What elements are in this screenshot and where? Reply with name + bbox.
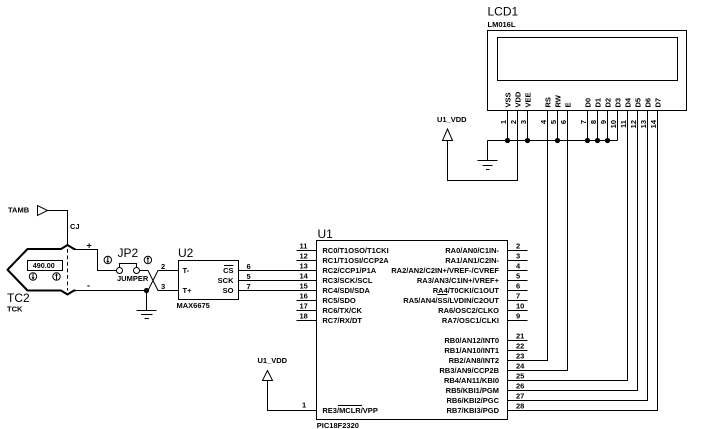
svg-text:LCD1: LCD1 xyxy=(488,5,519,19)
svg-text:U1_VDD: U1_VDD xyxy=(437,115,467,124)
wire LCD pin 5 RW to ground bus xyxy=(557,111,559,141)
U1 pin 12 stub xyxy=(297,260,317,262)
svg-text:3: 3 xyxy=(161,282,165,291)
svg-text:TAMB: TAMB xyxy=(8,206,30,215)
svg-text:RA1/AN1/C2IN-: RA1/AN1/C2IN- xyxy=(445,256,499,265)
svg-text:1: 1 xyxy=(302,401,306,410)
svg-text:13: 13 xyxy=(300,262,308,271)
svg-text:9: 9 xyxy=(516,312,520,321)
TC2 internal dashed junction line xyxy=(67,249,69,291)
wire LCD pin 9 D2 to ground bus xyxy=(607,111,609,141)
wire U2 SCK pin 5 to U1 RC3 pin 14 xyxy=(239,280,317,282)
svg-text:RB1/AN10/INT1: RB1/AN10/INT1 xyxy=(444,346,499,355)
svg-text:U1_VDD: U1_VDD xyxy=(258,356,288,365)
svg-text:12: 12 xyxy=(300,252,308,261)
svg-text:9: 9 xyxy=(599,120,608,124)
U2 pin 2 number label xyxy=(161,262,165,271)
svg-text:24: 24 xyxy=(516,362,525,371)
U1 left pin labels RC0-RC7 xyxy=(322,246,389,325)
U2 pin label SO xyxy=(223,286,234,295)
U2 pin label SCK xyxy=(218,276,234,285)
microcontroller U1 body xyxy=(317,241,508,420)
svg-text:SCK: SCK xyxy=(218,276,234,285)
svg-text:5: 5 xyxy=(247,272,251,281)
svg-text:T+: T+ xyxy=(183,286,193,295)
svg-text:CS: CS xyxy=(223,266,233,275)
U1 pin 16 stub xyxy=(297,300,317,302)
U1 right RB pin numbers 21-28 xyxy=(516,332,525,411)
U2 value MAX6675 xyxy=(177,301,210,310)
jumper JP2 reference label xyxy=(118,246,139,260)
svg-text:CJ: CJ xyxy=(70,222,80,231)
wire LCD pin 7 D0 to ground bus xyxy=(587,111,589,141)
crossover wire to U2 T+ pin 3 xyxy=(148,271,179,291)
svg-text:T-: T- xyxy=(183,266,190,275)
TC2 value TCK xyxy=(7,305,23,314)
svg-text:22: 22 xyxy=(516,342,524,351)
svg-text:15: 15 xyxy=(300,282,308,291)
svg-text:RA7/OSC1/CLKI: RA7/OSC1/CLKI xyxy=(442,316,499,325)
svg-text:RA3/AN3/C1IN+/VREF+: RA3/AN3/C1IN+/VREF+ xyxy=(417,276,500,285)
U2 reference label xyxy=(178,246,194,260)
svg-text:VEE: VEE xyxy=(523,92,532,107)
LCD1 pin name labels VSS VDD VEE RS RW E D0-D7 xyxy=(503,91,662,107)
down-arrow indicator near JP2 xyxy=(104,256,111,263)
LCD1 pin numbers 1-14 xyxy=(499,119,658,128)
svg-text:D6: D6 xyxy=(643,98,652,108)
wire TC2 minus terminal to ground junction xyxy=(76,290,149,292)
junction dot on TC2 minus net xyxy=(144,288,149,293)
LCD1 reference label xyxy=(488,5,519,19)
svg-text:RC0/T1OSO/T1CKI: RC0/T1OSO/T1CKI xyxy=(322,246,388,255)
svg-text:RS: RS xyxy=(543,97,552,107)
wire U2 SO pin 7 to U1 RC4 pin 15 xyxy=(239,290,317,292)
U1 pin label RE3/MCLR/VPP with overline xyxy=(322,406,377,416)
svg-text:11: 11 xyxy=(619,120,628,128)
svg-text:10: 10 xyxy=(609,120,618,128)
TC2 reference label xyxy=(7,291,30,305)
svg-text:14: 14 xyxy=(649,119,658,128)
wire LCD pin 10 D3 to ground bus xyxy=(617,111,619,141)
wire LCD pin 12 D5 to U1 pin 26 RB5 xyxy=(508,111,638,391)
svg-text:14: 14 xyxy=(300,272,309,281)
svg-text:4: 4 xyxy=(516,262,521,271)
node label CJ xyxy=(70,222,80,231)
U2 pin label CS with overline xyxy=(223,266,233,276)
svg-text:LM016L: LM016L xyxy=(488,20,516,29)
svg-text:6: 6 xyxy=(559,120,568,124)
svg-text:RB0/AN12/INT0: RB0/AN12/INT0 xyxy=(444,336,499,345)
wire LCD pin 11 D4 to U1 pin 25 RB4 xyxy=(508,111,628,381)
ground bus wire under LCD xyxy=(488,141,618,161)
svg-text:7: 7 xyxy=(516,292,520,301)
svg-text:RC6/TX/CK: RC6/TX/CK xyxy=(322,306,362,315)
svg-text:RC2/CCP1/P1A: RC2/CCP1/P1A xyxy=(322,266,376,275)
svg-text:U2: U2 xyxy=(178,246,194,260)
input port TAMB xyxy=(8,206,48,216)
wire LCD pin 4 RS to U1 pin 23 RB2 xyxy=(508,111,548,361)
svg-text:RW: RW xyxy=(553,94,562,107)
U2 pin 5 number label xyxy=(247,272,251,281)
U1 left pin numbers 11-18 xyxy=(300,242,309,321)
U2 pin 7 number label xyxy=(247,282,251,291)
svg-text:RA4/T0CKI/C1OUT: RA4/T0CKI/C1OUT xyxy=(433,286,500,295)
svg-text:PIC18F2320: PIC18F2320 xyxy=(317,421,359,429)
wire U1_VDD to LCD pin 2 VDD xyxy=(448,111,518,181)
svg-text:RB6/KBI2/PGC: RB6/KBI2/PGC xyxy=(446,396,499,405)
svg-text:JP2: JP2 xyxy=(118,246,139,260)
svg-text:5: 5 xyxy=(549,120,558,124)
TC2 minus terminal label xyxy=(87,281,90,291)
svg-text:2: 2 xyxy=(516,242,520,251)
junction dots on ground bus xyxy=(505,138,610,143)
TC2 value display 490.00 xyxy=(28,261,63,271)
svg-text:490.00: 490.00 xyxy=(33,261,55,270)
svg-text:12: 12 xyxy=(629,120,638,128)
U1 pin 17 stub xyxy=(297,310,317,312)
jumper JP2 body xyxy=(117,264,140,274)
wire TAMB to TC2 cold junction, node CJ xyxy=(48,211,68,246)
svg-text:25: 25 xyxy=(516,372,524,381)
U1 pin 11 stub xyxy=(297,250,317,252)
wire LCD pin 14 D7 to U1 pin 28 RB7 xyxy=(508,111,658,411)
svg-text:27: 27 xyxy=(516,392,524,401)
LCD module LCD1 body xyxy=(488,31,687,111)
svg-text:10: 10 xyxy=(516,302,524,311)
op-amp U2 body MAX6675 xyxy=(179,261,239,300)
svg-text:16: 16 xyxy=(300,292,308,301)
svg-text:JUMPER: JUMPER xyxy=(117,274,149,283)
svg-text:3: 3 xyxy=(516,252,520,261)
LCD1 value LM016L xyxy=(488,20,516,29)
svg-text:6: 6 xyxy=(247,262,251,271)
svg-text:RA2/AN2/C2IN+/VREF-/CVREF: RA2/AN2/C2IN+/VREF-/CVREF xyxy=(391,266,499,275)
up-arrow indicator near JP2 xyxy=(144,256,151,263)
svg-text:2: 2 xyxy=(509,120,518,124)
svg-text:RE3/MCLR/VPP: RE3/MCLR/VPP xyxy=(322,406,377,415)
svg-text:VDD: VDD xyxy=(513,91,522,107)
svg-text:RC7/RX/DT: RC7/RX/DT xyxy=(322,316,362,325)
svg-text:RC4/SDI/SDA: RC4/SDI/SDA xyxy=(322,286,370,295)
wire U1 MCLR pin 1 to U1_VDD xyxy=(268,381,317,411)
wire LCD pin 6 E to U1 pin 24 RB3 xyxy=(508,111,568,371)
wire LCD pin 8 D1 to ground bus xyxy=(597,111,599,141)
power symbol U1_VDD near LCD xyxy=(437,115,467,141)
svg-text:13: 13 xyxy=(639,120,648,128)
U2 pin label T- xyxy=(183,266,190,275)
U1 value PIC18F2320 xyxy=(317,421,359,429)
svg-text:RC5/SDO: RC5/SDO xyxy=(322,296,356,305)
ground symbol under LCD xyxy=(478,161,498,170)
crossover wire to U2 T- pin 2 xyxy=(148,271,179,291)
U1 pin 21 RB0 stub xyxy=(508,340,528,342)
jumper JP2 value JUMPER xyxy=(117,274,149,283)
svg-text:RB3/AN9/CCP2B: RB3/AN9/CCP2B xyxy=(439,366,499,375)
svg-text:D7: D7 xyxy=(653,98,662,108)
svg-text:RA5/AN4/SS/LVDIN/C2OUT: RA5/AN4/SS/LVDIN/C2OUT xyxy=(403,296,499,305)
svg-text:18: 18 xyxy=(300,312,308,321)
power symbol U1_VDD near U1 xyxy=(258,356,288,381)
U1 right pin labels RA0-RA7 xyxy=(391,246,499,325)
TC2 plus terminal label xyxy=(87,241,92,251)
svg-text:VSS: VSS xyxy=(503,92,512,107)
svg-text:D4: D4 xyxy=(623,97,632,107)
svg-text:RB5/KBI1/PGM: RB5/KBI1/PGM xyxy=(446,386,499,395)
svg-text:RB4/AN11/KBI0: RB4/AN11/KBI0 xyxy=(444,376,499,385)
svg-text:E: E xyxy=(563,102,572,107)
wire LCD pin 3 VEE to ground bus xyxy=(527,111,529,141)
wire JP2 to crossover xyxy=(140,270,149,272)
svg-text:21: 21 xyxy=(516,332,524,341)
svg-text:TCK: TCK xyxy=(7,305,23,314)
U2 pin label T+ xyxy=(183,286,193,295)
svg-text:4: 4 xyxy=(539,119,548,124)
svg-text:23: 23 xyxy=(516,352,524,361)
svg-text:RC1/T1OSI/CCP2A: RC1/T1OSI/CCP2A xyxy=(322,256,389,265)
svg-text:7: 7 xyxy=(579,120,588,124)
U1 pin 18 stub xyxy=(297,320,317,322)
svg-text:RA0/AN0/C1IN-: RA0/AN0/C1IN- xyxy=(445,246,499,255)
svg-text:8: 8 xyxy=(589,120,598,124)
ground symbol below junction xyxy=(137,291,157,319)
svg-text:2: 2 xyxy=(161,262,165,271)
svg-text:26: 26 xyxy=(516,382,524,391)
TC2 up-arrow indicator xyxy=(53,273,60,280)
U1 reference label xyxy=(318,227,334,241)
svg-text:SO: SO xyxy=(223,286,234,295)
U1 right pin labels RB0-RB7 xyxy=(439,336,499,415)
svg-text:RC3/SCK/SCL: RC3/SCK/SCL xyxy=(322,276,372,285)
svg-text:RA6/OSC2/CLKO: RA6/OSC2/CLKO xyxy=(438,306,499,315)
svg-text:7: 7 xyxy=(247,282,251,291)
svg-text:1: 1 xyxy=(499,120,508,124)
U1 right RA pin numbers xyxy=(516,242,524,321)
wire TC2 plus terminal to jumper JP2 xyxy=(76,250,117,271)
svg-text:D0: D0 xyxy=(583,98,592,108)
svg-text:11: 11 xyxy=(300,242,308,251)
svg-text:D5: D5 xyxy=(633,98,642,108)
svg-text:D1: D1 xyxy=(593,98,602,108)
svg-text:RB7/KBI3/PGD: RB7/KBI3/PGD xyxy=(446,406,499,415)
U1 right RA pin stubs xyxy=(508,251,528,321)
svg-text:-: - xyxy=(87,281,90,291)
svg-text:5: 5 xyxy=(516,272,520,281)
svg-text:RB2/AN8/INT2: RB2/AN8/INT2 xyxy=(449,356,499,365)
svg-text:TC2: TC2 xyxy=(7,291,30,305)
svg-text:3: 3 xyxy=(519,120,528,124)
svg-text:6: 6 xyxy=(516,282,520,291)
svg-text:U1: U1 xyxy=(318,227,334,241)
svg-text:D3: D3 xyxy=(613,98,622,108)
U2 pin 3 number label xyxy=(161,282,165,291)
svg-text:D2: D2 xyxy=(603,98,612,108)
thermocouple TC2 body xyxy=(8,245,76,295)
TC2 down-arrow indicator xyxy=(29,273,36,280)
svg-text:28: 28 xyxy=(516,402,524,411)
U1 pin 22 RB1 stub xyxy=(508,350,528,352)
wire U2 CS pin 6 to U1 RC2 pin 13 xyxy=(239,270,317,272)
U2 pin 6 number label xyxy=(247,262,251,271)
U1 pin 1 number label xyxy=(302,401,306,410)
svg-text:17: 17 xyxy=(300,302,308,311)
wire LCD pin 13 D6 to U1 pin 27 RB6 xyxy=(508,111,648,401)
wire LCD pin 1 VSS to ground bus xyxy=(507,111,509,141)
svg-text:MAX6675: MAX6675 xyxy=(177,301,210,310)
